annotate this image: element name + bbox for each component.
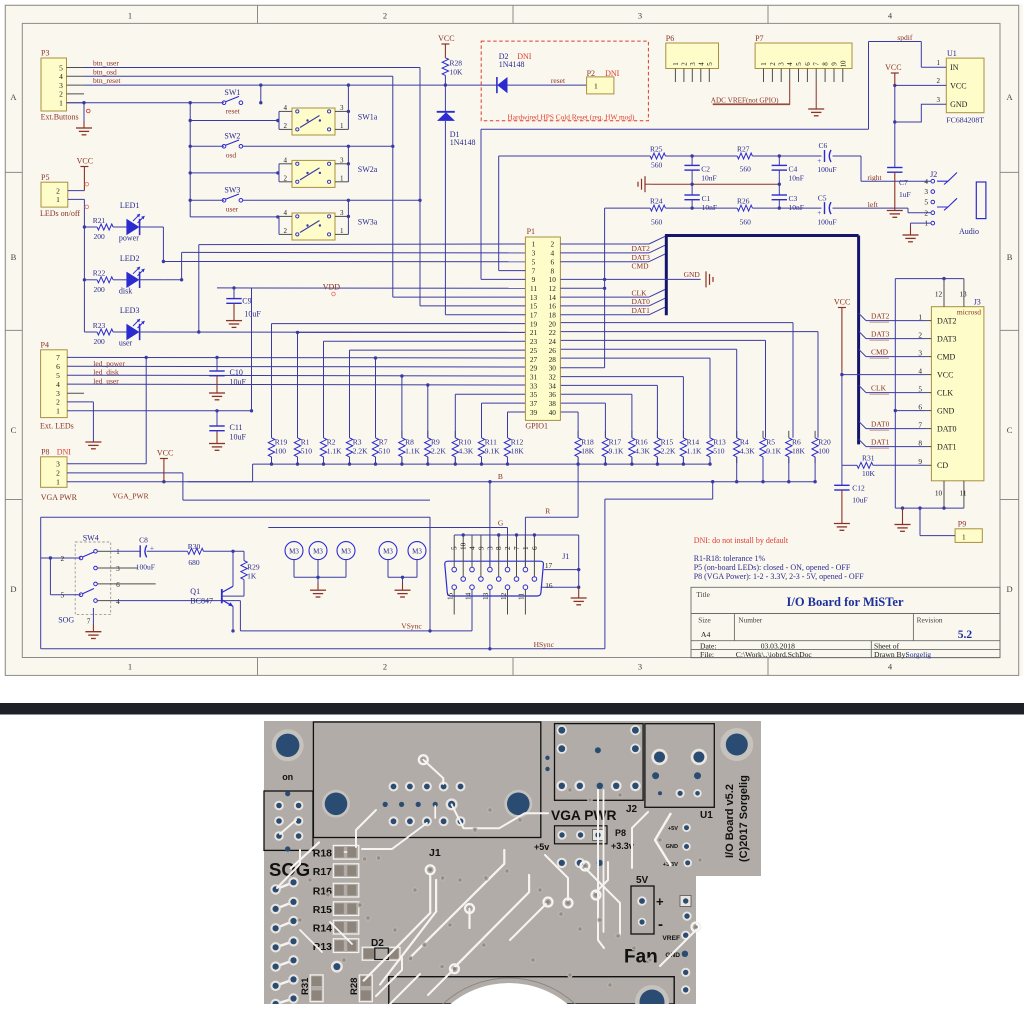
svg-text:2.2K: 2.2K	[353, 447, 368, 456]
svg-text:2: 2	[60, 554, 64, 563]
svg-text:C5: C5	[818, 194, 827, 203]
svg-text:Ext.Buttons: Ext.Buttons	[41, 113, 79, 122]
svg-text:J3: J3	[974, 297, 981, 306]
svg-text:CMD: CMD	[871, 347, 889, 356]
svg-text:680: 680	[188, 558, 200, 567]
svg-text:C1: C1	[702, 194, 711, 203]
svg-text:File:: File:	[700, 650, 714, 659]
svg-text:17: 17	[545, 561, 553, 570]
svg-text:R23: R23	[93, 321, 106, 330]
svg-text:7: 7	[532, 266, 536, 275]
svg-text:100: 100	[275, 447, 287, 456]
svg-text:R8: R8	[405, 437, 414, 446]
svg-text:SOG: SOG	[269, 859, 310, 880]
svg-text:8: 8	[550, 266, 554, 275]
svg-text:R1: R1	[301, 437, 310, 446]
svg-text:37: 37	[530, 399, 538, 408]
svg-text:14: 14	[549, 293, 557, 302]
svg-text:22: 22	[549, 328, 557, 337]
svg-text:2: 2	[769, 62, 777, 66]
svg-text:DAT1: DAT1	[632, 306, 651, 315]
svg-text:R28: R28	[450, 59, 463, 68]
svg-text:C4: C4	[789, 165, 798, 174]
svg-text:CD: CD	[937, 461, 948, 470]
svg-text:2: 2	[924, 208, 928, 217]
svg-text:10uF: 10uF	[852, 495, 867, 504]
svg-text:10: 10	[935, 488, 943, 497]
svg-text:5: 5	[918, 384, 922, 393]
svg-text:27: 27	[530, 355, 538, 364]
svg-text:osd: osd	[226, 150, 237, 159]
svg-text:2: 2	[383, 11, 387, 21]
svg-text:10K: 10K	[450, 68, 464, 77]
svg-text:btn_reset: btn_reset	[93, 76, 121, 85]
svg-text:M3: M3	[313, 547, 323, 555]
svg-text:7: 7	[813, 62, 821, 66]
svg-text:6: 6	[56, 362, 60, 371]
svg-text:1: 1	[128, 662, 132, 672]
svg-text:28: 28	[549, 355, 557, 364]
svg-text:VCC: VCC	[885, 63, 901, 72]
svg-text:4: 4	[59, 72, 63, 81]
svg-text:CLK: CLK	[937, 388, 953, 397]
svg-text:1: 1	[56, 478, 60, 487]
svg-text:510: 510	[713, 447, 725, 456]
svg-text:9.1K: 9.1K	[609, 447, 624, 456]
svg-text:DNI: do not install by default: DNI: do not install by default	[694, 536, 789, 545]
svg-text:C:\Work\..\iobrd.SchDoc: C:\Work\..\iobrd.SchDoc	[736, 650, 813, 659]
svg-text:P7: P7	[755, 34, 763, 43]
svg-text:R2: R2	[327, 437, 336, 446]
svg-text:3: 3	[924, 187, 928, 196]
svg-text:2: 2	[550, 240, 554, 249]
svg-text:CLK: CLK	[632, 288, 648, 297]
svg-text:3: 3	[56, 389, 60, 398]
svg-text:9.1K: 9.1K	[766, 447, 781, 456]
svg-text:C: C	[11, 425, 17, 435]
svg-text:9: 9	[831, 62, 839, 66]
svg-text:microsd: microsd	[957, 307, 981, 316]
svg-text:3: 3	[689, 62, 697, 66]
svg-text:P2: P2	[587, 69, 595, 78]
svg-text:VREF: VREF	[662, 935, 680, 942]
svg-text:200: 200	[94, 232, 106, 241]
svg-text:10nF: 10nF	[701, 174, 716, 183]
svg-text:VGA PWR: VGA PWR	[41, 493, 78, 502]
svg-text:3: 3	[918, 348, 922, 357]
svg-text:DAT1: DAT1	[871, 437, 890, 446]
svg-text:5: 5	[795, 62, 803, 66]
svg-text:FC684208T: FC684208T	[946, 115, 984, 124]
svg-text:VGA_PWR: VGA_PWR	[112, 492, 148, 501]
svg-text:Date:: Date:	[700, 641, 716, 650]
svg-text:Drawn By:: Drawn By:	[874, 650, 908, 659]
svg-text:R20: R20	[818, 437, 831, 446]
svg-text:1: 1	[128, 11, 132, 21]
svg-text:4: 4	[924, 177, 928, 186]
svg-text:btn_osd: btn_osd	[93, 67, 117, 76]
svg-text:R13: R13	[713, 437, 726, 446]
svg-text:Hardwired HPS Cold Reset (req.: Hardwired HPS Cold Reset (req. HW mod)	[508, 112, 636, 121]
svg-text:C8: C8	[139, 536, 148, 545]
svg-text:R5: R5	[766, 437, 775, 446]
svg-text:SW2: SW2	[224, 132, 240, 141]
svg-text:DAT2: DAT2	[632, 244, 651, 253]
svg-text:11: 11	[959, 488, 966, 497]
svg-text:1: 1	[522, 546, 530, 550]
svg-text:5: 5	[924, 198, 928, 207]
svg-text:510: 510	[301, 447, 313, 456]
svg-text:18K: 18K	[581, 447, 595, 456]
svg-text:GND: GND	[950, 100, 968, 109]
svg-text:4: 4	[468, 546, 476, 550]
svg-text:15: 15	[447, 592, 455, 600]
svg-text:R31: R31	[300, 977, 311, 995]
svg-text:11: 11	[530, 284, 537, 293]
svg-text:VCC: VCC	[438, 34, 454, 43]
svg-text:M3: M3	[412, 547, 422, 555]
svg-text:8: 8	[918, 438, 922, 447]
svg-text:38: 38	[549, 399, 557, 408]
svg-text:1: 1	[918, 312, 922, 321]
svg-text:DAT3: DAT3	[632, 253, 651, 262]
svg-text:P5: P5	[41, 173, 49, 182]
svg-text:5: 5	[706, 62, 714, 66]
svg-text:DAT1: DAT1	[937, 442, 957, 451]
svg-text:SW3a: SW3a	[358, 218, 378, 227]
svg-text:reset: reset	[226, 107, 241, 116]
svg-text:DAT2: DAT2	[937, 316, 957, 325]
svg-text:Sorgelig: Sorgelig	[906, 650, 932, 659]
svg-text:4: 4	[786, 62, 794, 66]
svg-text:3: 3	[937, 96, 941, 104]
svg-text:VSync: VSync	[401, 621, 422, 630]
svg-text:DNI: DNI	[57, 448, 72, 457]
svg-text:200: 200	[94, 337, 106, 346]
svg-text:J2: J2	[930, 170, 937, 179]
svg-text:1: 1	[56, 195, 60, 204]
svg-text:VDD: VDD	[323, 282, 341, 291]
svg-text:16: 16	[549, 302, 557, 311]
svg-text:18K: 18K	[792, 447, 806, 456]
svg-text:10uF: 10uF	[244, 310, 261, 319]
svg-text:15: 15	[530, 302, 538, 311]
svg-text:+3.3v: +3.3v	[611, 841, 634, 851]
svg-text:2.2K: 2.2K	[661, 447, 676, 456]
svg-text:R10: R10	[459, 437, 472, 446]
svg-text:5: 5	[532, 257, 536, 266]
svg-text:1: 1	[672, 62, 680, 66]
svg-text:C10: C10	[230, 368, 243, 377]
svg-text:DNI: DNI	[605, 69, 620, 78]
svg-text:11: 11	[518, 593, 526, 600]
svg-text:J1: J1	[429, 847, 441, 859]
svg-text:3: 3	[340, 209, 344, 217]
svg-text:1: 1	[532, 240, 536, 249]
svg-text:A: A	[1007, 92, 1014, 102]
svg-text:P1: P1	[527, 227, 535, 236]
svg-text:LED1: LED1	[120, 201, 140, 210]
svg-text:3: 3	[59, 81, 63, 90]
svg-text:R17: R17	[609, 437, 622, 446]
svg-text:4: 4	[56, 380, 60, 389]
svg-text:P6: P6	[666, 34, 674, 43]
svg-text:+: +	[817, 209, 821, 217]
svg-text:34: 34	[549, 381, 557, 390]
svg-text:40: 40	[549, 408, 557, 417]
svg-text:CLK: CLK	[871, 383, 887, 392]
svg-text:30: 30	[549, 364, 557, 373]
svg-text:2: 2	[56, 469, 60, 478]
svg-text:spdif: spdif	[897, 33, 913, 42]
svg-text:VCC: VCC	[157, 449, 173, 458]
svg-text:+5v: +5v	[534, 842, 549, 852]
svg-text:R22: R22	[93, 269, 106, 278]
svg-text:5: 5	[451, 546, 459, 550]
svg-text:5V: 5V	[636, 875, 649, 886]
svg-text:21: 21	[530, 328, 538, 337]
svg-text:P4: P4	[41, 340, 49, 349]
svg-text:23: 23	[530, 337, 538, 346]
svg-text:31: 31	[530, 372, 538, 381]
svg-text:R12: R12	[511, 437, 524, 446]
svg-text:GPIO1: GPIO1	[525, 421, 548, 430]
svg-text:R21: R21	[93, 216, 106, 225]
svg-text:2: 2	[284, 227, 288, 235]
svg-text:R15: R15	[661, 437, 674, 446]
svg-text:6: 6	[116, 580, 120, 589]
svg-text:Q1: Q1	[190, 587, 200, 596]
svg-text:2: 2	[284, 174, 288, 182]
svg-text:9.1K: 9.1K	[485, 447, 500, 456]
svg-text:I/O Board for MiSTer: I/O Board for MiSTer	[786, 595, 903, 609]
svg-text:VCC: VCC	[834, 297, 850, 306]
svg-text:12: 12	[500, 592, 508, 600]
svg-text:LED3: LED3	[120, 306, 140, 315]
svg-text:CMD: CMD	[937, 352, 955, 361]
svg-text:4: 4	[284, 156, 288, 164]
svg-text:36: 36	[549, 390, 557, 399]
svg-text:2: 2	[59, 90, 63, 99]
svg-text:Audio: Audio	[959, 227, 979, 236]
svg-text:C: C	[1007, 425, 1013, 435]
svg-text:1N4148: 1N4148	[499, 60, 525, 69]
svg-text:4: 4	[550, 249, 554, 258]
svg-text:510: 510	[379, 447, 391, 456]
svg-text:DAT2: DAT2	[871, 311, 890, 320]
svg-text:R3: R3	[353, 437, 362, 446]
svg-text:Number: Number	[738, 615, 762, 624]
svg-text:VCC: VCC	[950, 82, 966, 91]
svg-text:3: 3	[56, 460, 60, 469]
svg-text:2: 2	[680, 62, 688, 66]
svg-text:13: 13	[482, 592, 490, 600]
svg-text:1: 1	[59, 99, 63, 108]
svg-text:D: D	[1007, 584, 1013, 594]
svg-text:Sheet of: Sheet of	[874, 641, 900, 650]
svg-text:3: 3	[340, 104, 344, 112]
svg-text:J1: J1	[562, 552, 569, 561]
svg-text:100uF: 100uF	[817, 165, 836, 174]
svg-text:right: right	[867, 173, 882, 182]
svg-text:R24: R24	[650, 196, 663, 205]
svg-text:-: -	[658, 916, 663, 933]
svg-text:on: on	[282, 772, 293, 782]
svg-text:03.03.2018: 03.03.2018	[761, 641, 795, 650]
svg-text:1K: 1K	[247, 572, 257, 581]
svg-text:10uF: 10uF	[230, 378, 247, 387]
svg-text:DAT0: DAT0	[632, 297, 651, 306]
svg-text:10: 10	[460, 542, 468, 550]
svg-text:P9: P9	[958, 520, 966, 529]
svg-text:3: 3	[778, 62, 786, 66]
svg-text:B: B	[11, 252, 17, 262]
svg-text:29: 29	[530, 364, 538, 373]
svg-text:Fan: Fan	[624, 947, 658, 968]
svg-text:3: 3	[532, 249, 536, 258]
svg-text:2: 2	[918, 330, 922, 339]
svg-text:R26: R26	[737, 196, 750, 205]
svg-text:P5 (on-board LEDs): closed - O: P5 (on-board LEDs): closed - ON, opened …	[694, 563, 851, 572]
svg-text:GND: GND	[937, 406, 955, 415]
svg-text:M3: M3	[289, 547, 299, 555]
svg-text:1: 1	[340, 227, 344, 235]
svg-text:1: 1	[962, 532, 966, 541]
svg-text:2: 2	[937, 77, 941, 85]
svg-text:20: 20	[549, 319, 557, 328]
svg-text:10nF: 10nF	[789, 174, 804, 183]
svg-text:7: 7	[87, 617, 91, 626]
svg-text:P8: P8	[41, 448, 49, 457]
svg-text:R1-R18: tolerance 1%: R1-R18: tolerance 1%	[694, 554, 766, 563]
svg-text:SW1: SW1	[224, 88, 240, 97]
svg-text:Size: Size	[698, 615, 711, 624]
svg-text:R11: R11	[485, 437, 497, 446]
svg-text:U1: U1	[700, 810, 713, 821]
svg-text:7: 7	[513, 546, 521, 550]
svg-text:13: 13	[959, 290, 967, 299]
svg-text:left: left	[868, 200, 879, 209]
svg-text:4.3K: 4.3K	[635, 447, 650, 456]
svg-text:100uF: 100uF	[817, 218, 836, 227]
svg-text:SW2a: SW2a	[358, 165, 378, 174]
svg-text:26: 26	[549, 346, 557, 355]
svg-text:2: 2	[504, 546, 512, 550]
svg-text:CMD: CMD	[632, 262, 650, 271]
svg-text:6: 6	[918, 402, 922, 411]
svg-text:+: +	[817, 157, 821, 165]
svg-text:1: 1	[937, 59, 941, 67]
svg-text:IN: IN	[950, 63, 959, 72]
svg-text:1.1K: 1.1K	[405, 447, 420, 456]
svg-text:VGA PWR: VGA PWR	[551, 808, 616, 823]
svg-text:9: 9	[477, 546, 485, 550]
svg-text:Title: Title	[696, 590, 710, 599]
svg-text:R7: R7	[379, 437, 388, 446]
svg-text:6: 6	[531, 546, 539, 550]
svg-text:BC847: BC847	[190, 597, 213, 606]
svg-text:10K: 10K	[862, 469, 876, 478]
svg-text:4: 4	[697, 62, 705, 66]
svg-text:560: 560	[651, 161, 663, 170]
svg-text:P3: P3	[41, 49, 49, 58]
svg-text:6: 6	[804, 62, 812, 66]
svg-text:R: R	[545, 507, 550, 516]
svg-text:C9: C9	[242, 297, 251, 306]
svg-text:200: 200	[94, 285, 106, 294]
svg-text:ADC VREF(not GPIO): ADC VREF(not GPIO)	[711, 96, 779, 104]
svg-text:12: 12	[935, 290, 943, 299]
svg-text:10: 10	[839, 60, 847, 68]
svg-text:12: 12	[549, 284, 557, 293]
svg-text:Ext. LEDs: Ext. LEDs	[40, 421, 74, 430]
svg-text:100uF: 100uF	[136, 562, 155, 571]
svg-text:19: 19	[530, 319, 538, 328]
svg-text:LED2: LED2	[120, 254, 140, 263]
svg-text:4: 4	[918, 366, 922, 375]
svg-text:33: 33	[530, 381, 538, 390]
svg-text:8: 8	[495, 546, 503, 550]
svg-text:C6: C6	[819, 141, 828, 150]
svg-text:reset: reset	[551, 76, 566, 85]
svg-text:(C)2017 Sorgelig: (C)2017 Sorgelig	[738, 775, 750, 862]
svg-text:24: 24	[549, 337, 557, 346]
svg-text:SW3: SW3	[224, 186, 240, 195]
svg-text:DAT0: DAT0	[937, 424, 957, 433]
svg-text:user: user	[226, 204, 239, 213]
svg-text:VCC: VCC	[937, 370, 953, 379]
svg-text:13: 13	[530, 293, 538, 302]
svg-text:DAT3: DAT3	[937, 334, 957, 343]
svg-text:35: 35	[530, 390, 538, 399]
svg-text:D: D	[10, 584, 16, 594]
svg-text:+: +	[656, 894, 664, 909]
svg-text:SW1a: SW1a	[358, 113, 378, 122]
svg-text:R27: R27	[737, 144, 750, 153]
svg-text:32: 32	[549, 372, 557, 381]
svg-text:18K: 18K	[511, 447, 525, 456]
svg-text:5: 5	[56, 371, 60, 380]
svg-text:SW4: SW4	[83, 533, 99, 542]
svg-text:B: B	[498, 472, 503, 481]
svg-text:2.2K: 2.2K	[431, 447, 446, 456]
svg-text:9: 9	[918, 457, 922, 466]
svg-text:P8: P8	[615, 828, 626, 838]
svg-text:VCC: VCC	[77, 157, 93, 166]
svg-text:2: 2	[383, 662, 387, 672]
svg-text:1.1K: 1.1K	[687, 447, 702, 456]
svg-text:C11: C11	[230, 423, 243, 432]
svg-text:R30: R30	[188, 542, 201, 551]
svg-text:9: 9	[532, 275, 536, 284]
svg-text:R16: R16	[635, 437, 648, 446]
svg-text:2: 2	[284, 122, 288, 130]
svg-text:C12: C12	[852, 484, 865, 493]
svg-text:3: 3	[638, 11, 642, 21]
svg-text:2: 2	[56, 186, 60, 195]
svg-text:G: G	[498, 519, 504, 528]
svg-text:HSync: HSync	[534, 640, 555, 649]
svg-text:R14: R14	[687, 437, 700, 446]
svg-text:C2: C2	[701, 165, 710, 174]
svg-text:5: 5	[59, 63, 63, 72]
svg-text:+5V: +5V	[668, 826, 678, 832]
svg-text:16: 16	[545, 581, 553, 590]
svg-text:R9: R9	[431, 437, 440, 446]
svg-text:25: 25	[530, 346, 538, 355]
svg-text:R6: R6	[792, 437, 801, 446]
svg-text:1: 1	[594, 81, 598, 90]
